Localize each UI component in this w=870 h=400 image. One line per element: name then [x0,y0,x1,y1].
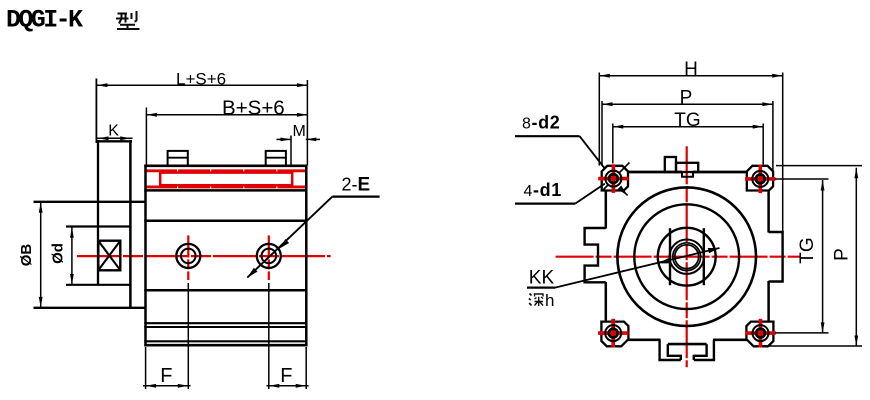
svg-text:ØB: ØB [18,244,35,267]
svg-text:B+S+6: B+S+6 [222,96,285,119]
svg-text:P: P [680,88,693,109]
svg-text:H: H [684,59,698,80]
svg-text:h: h [545,291,554,310]
svg-text:TG: TG [674,110,700,131]
svg-text:F: F [280,365,292,387]
svg-text:K: K [108,123,119,140]
svg-text:L+S+6: L+S+6 [176,70,226,89]
svg-text:M: M [293,123,306,140]
svg-text:F: F [160,365,172,387]
svg-text:P: P [832,248,853,261]
svg-text:TG: TG [797,237,818,263]
svg-text:4-d1: 4-d1 [524,180,562,200]
svg-text:DQGI-K: DQGI-K [6,6,83,35]
svg-text:KK: KK [529,267,555,288]
svg-text:8-d2: 8-d2 [522,112,560,132]
svg-text:2-E: 2-E [342,175,371,196]
svg-text:Ød: Ød [50,243,67,264]
